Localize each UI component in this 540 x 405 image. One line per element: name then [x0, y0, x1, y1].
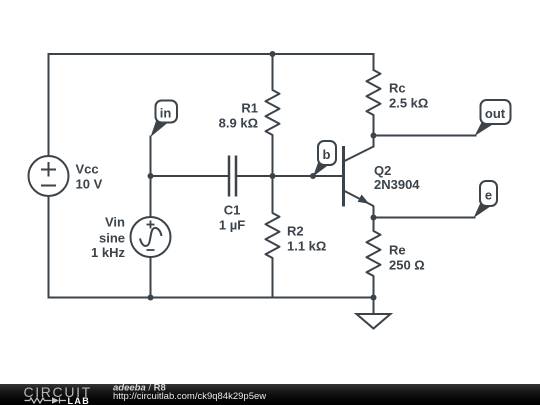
svg-text:http://circuitlab.com/ck9q84k2: http://circuitlab.com/ck9q84k29p5ew	[113, 391, 266, 402]
junction R1 top	[270, 51, 276, 57]
svg-text:Rc: Rc	[389, 81, 406, 96]
wire bottom rail	[49, 297, 374, 299]
CircuitLab logo	[24, 384, 92, 405]
wire in node to C1	[151, 175, 229, 177]
resistor R1	[266, 54, 280, 176]
node flag b	[313, 141, 336, 177]
voltage source Vin (sine)	[131, 217, 171, 257]
svg-text:1.1 kΩ: 1.1 kΩ	[287, 239, 326, 254]
svg-text:sine: sine	[99, 231, 125, 246]
svg-text:in: in	[160, 106, 172, 121]
wire collector to out node	[373, 136, 375, 147]
node flag out	[475, 100, 511, 136]
wire left rail bottom	[48, 196, 50, 298]
wire top rail	[49, 54, 374, 156]
junction Vin bottom	[148, 295, 154, 301]
svg-text:R1: R1	[241, 101, 258, 116]
node flag e	[474, 181, 498, 218]
wire Vin bottom lead	[150, 257, 152, 298]
svg-text:C1: C1	[224, 203, 241, 218]
capacitor C1	[229, 156, 236, 197]
wire in-flag stem	[150, 137, 152, 177]
svg-text:Vin: Vin	[105, 215, 125, 230]
svg-text:Vcc: Vcc	[76, 162, 99, 177]
wire e	[374, 217, 475, 219]
transistor Q2	[344, 146, 374, 207]
wire C1 to base	[237, 175, 343, 177]
svg-text:Q2: Q2	[374, 163, 391, 178]
voltage source Vcc	[29, 156, 69, 196]
resistor Re	[367, 218, 381, 298]
svg-text:2N3904: 2N3904	[374, 177, 420, 192]
wire out	[374, 135, 476, 137]
junction e node	[371, 215, 377, 221]
node flag in	[151, 101, 178, 138]
junction b-flag	[310, 173, 316, 179]
svg-text:8.9 kΩ: 8.9 kΩ	[219, 116, 258, 131]
svg-text:Re: Re	[389, 243, 406, 258]
junction base node	[270, 173, 276, 179]
svg-text:LAB: LAB	[68, 396, 91, 405]
ground	[357, 298, 391, 329]
resistor R2	[266, 176, 280, 298]
junction ground	[371, 295, 377, 301]
svg-text:b: b	[323, 147, 331, 162]
svg-text:out: out	[485, 106, 506, 121]
svg-text:1 kHz: 1 kHz	[91, 245, 125, 260]
svg-text:e: e	[485, 188, 492, 203]
wire Vin top lead	[150, 176, 152, 217]
resistor Rc	[367, 54, 381, 136]
svg-text:10 V: 10 V	[76, 177, 103, 192]
junction in node	[148, 173, 154, 179]
svg-text:R2: R2	[287, 224, 304, 239]
svg-text:250 Ω: 250 Ω	[389, 258, 425, 273]
wire emitter to e node	[373, 207, 375, 218]
svg-text:2.5 kΩ: 2.5 kΩ	[389, 96, 428, 111]
svg-text:1 µF: 1 µF	[219, 218, 245, 233]
junction out node	[371, 133, 377, 139]
